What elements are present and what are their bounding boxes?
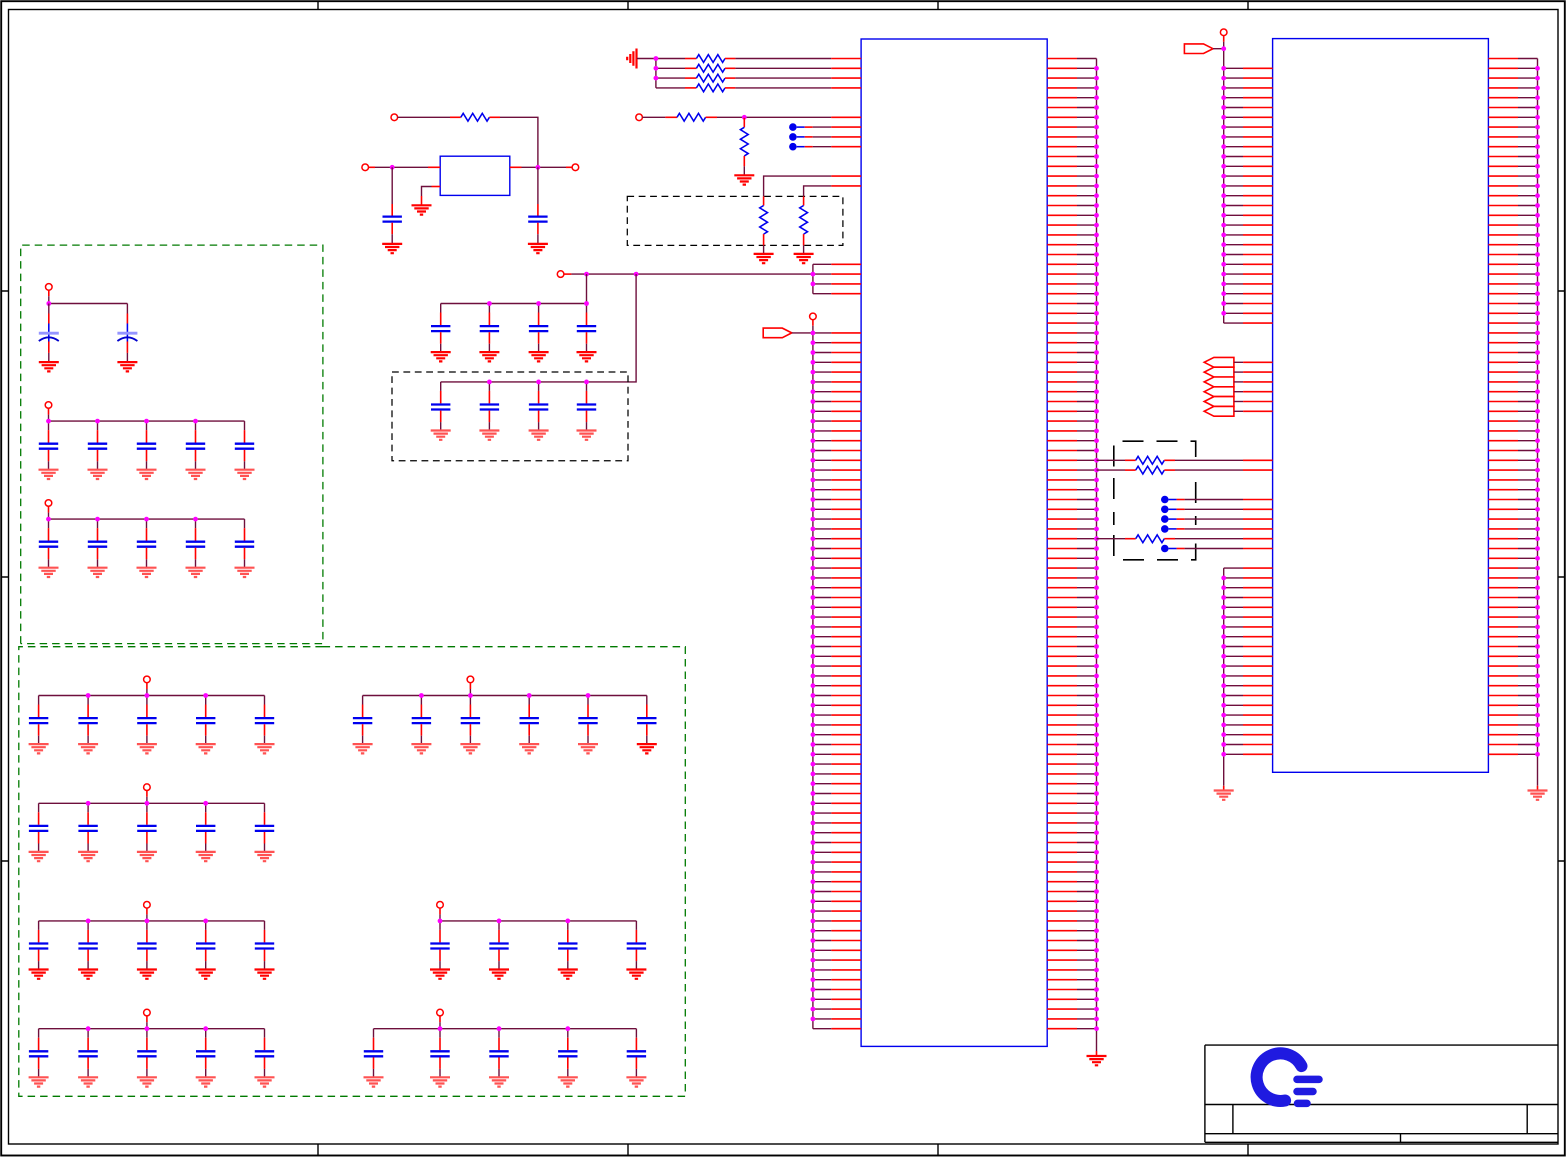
capacitor [480, 382, 499, 431]
no-connect dot [789, 143, 861, 151]
off-page connector [1204, 397, 1234, 407]
capacitor [186, 421, 205, 470]
ground [754, 254, 774, 263]
capacitor [627, 921, 646, 970]
junction dots [419, 693, 590, 698]
IC U1 [861, 39, 1047, 1046]
capacitor [29, 803, 48, 852]
wire U2 left bottom bus [1223, 568, 1225, 790]
no-connect dot [1161, 545, 1273, 553]
ground [137, 568, 157, 577]
ground [137, 744, 157, 753]
wire cap bank bus [39, 683, 265, 696]
capacitor [255, 1029, 274, 1078]
junction dots [46, 419, 198, 424]
capacitor [137, 921, 156, 970]
no-connect dot [1161, 496, 1273, 504]
wire GND bus right of U2 [1537, 59, 1539, 791]
capacitor [39, 421, 58, 470]
resistor R1 [656, 58, 697, 60]
ground [479, 431, 499, 440]
resistor R3 [656, 77, 697, 79]
dashed property box [1114, 441, 1196, 560]
terminal [144, 784, 151, 791]
resistor R6 to ground [743, 118, 745, 128]
ground [196, 970, 216, 979]
resistor R7 [764, 176, 862, 205]
capacitor [489, 921, 508, 970]
terminal [1220, 29, 1227, 36]
junction dots U1 right bus [1094, 66, 1099, 1031]
capacitor [255, 696, 274, 745]
ground [88, 568, 108, 577]
capacitor [364, 1029, 383, 1078]
capacitor [577, 304, 596, 353]
ground [255, 744, 275, 753]
resistor series R42 [1097, 469, 1136, 471]
junction dots U1 left bus [811, 331, 816, 1022]
capacitor [78, 1029, 97, 1078]
capacitor C1 [383, 167, 402, 244]
wire [1234, 401, 1273, 403]
ground [430, 1077, 450, 1086]
junction dots [86, 1026, 208, 1031]
capacitor [196, 696, 215, 745]
capacitor [489, 1029, 508, 1078]
ground [412, 205, 432, 214]
capacitor [78, 921, 97, 970]
off-page connector [1204, 367, 1234, 377]
ground [196, 1077, 216, 1086]
dashed property box [627, 196, 843, 245]
wire U2 left top bus [1213, 36, 1224, 324]
wire VCC rail [564, 264, 861, 293]
ground [489, 970, 509, 979]
ground [519, 744, 539, 753]
capacitor [577, 382, 596, 431]
wire [1234, 371, 1273, 373]
wire cap bank bus [49, 506, 245, 519]
capacitor [430, 1029, 449, 1078]
wire [1234, 410, 1273, 412]
ground [29, 970, 49, 979]
ground [29, 744, 49, 753]
wire [1234, 381, 1273, 383]
capacitor [431, 304, 450, 353]
terminal [572, 164, 579, 171]
ground [255, 970, 275, 979]
capacitor [412, 696, 431, 745]
capacitor [186, 519, 205, 568]
wire U2 left pin stubs [1224, 68, 1273, 323]
ground [353, 744, 373, 753]
ground [1528, 791, 1548, 800]
terminal [636, 114, 643, 121]
ground [794, 254, 814, 263]
capacitor [353, 696, 372, 745]
terminal [437, 902, 444, 909]
capacitor [578, 696, 597, 745]
capacitor [235, 421, 254, 470]
ground [117, 362, 137, 371]
ground [29, 1077, 49, 1086]
capacitor [137, 421, 156, 470]
wire cap bank feed [441, 274, 636, 382]
no-connect dot [1161, 515, 1273, 523]
no-connect dot [789, 123, 861, 131]
junction dots cap banks [487, 301, 589, 384]
junction dots [438, 1026, 571, 1031]
ground [558, 1077, 578, 1086]
wire cap bank bus [363, 683, 647, 696]
terminal [810, 313, 817, 320]
resistor R2 [656, 67, 697, 69]
junction dots VCC rail [584, 272, 815, 287]
ground [1214, 791, 1234, 800]
ground [529, 352, 549, 361]
capacitor [78, 803, 97, 852]
capacitor [39, 519, 58, 568]
capacitor [529, 382, 548, 431]
capacitor [627, 1029, 646, 1078]
wire GND bus right of U1 [1096, 59, 1098, 1057]
ground [78, 744, 98, 753]
wire regulator output [510, 166, 572, 168]
terminal [437, 1009, 444, 1016]
ground [382, 244, 402, 253]
ground [578, 744, 598, 753]
dashed property box [392, 372, 628, 461]
junction dots [86, 919, 208, 924]
no-connect dot [789, 133, 861, 141]
terminal [362, 164, 369, 171]
junction dots [654, 56, 659, 80]
wire cap bank bus [374, 1016, 637, 1029]
voltage group outline [19, 647, 686, 1097]
terminal VCC [557, 271, 564, 278]
capacitor [137, 803, 156, 852]
resistor R8 [804, 186, 862, 206]
capacitor [78, 696, 97, 745]
capacitor [137, 519, 156, 568]
ground [39, 362, 59, 371]
capacitor C2 [528, 167, 547, 244]
ground [137, 470, 157, 479]
resistor R5 with pulldown [642, 116, 677, 118]
capacitor [137, 696, 156, 745]
wire [1234, 391, 1273, 393]
no-connect dot [1161, 506, 1273, 514]
ground [186, 470, 206, 479]
ground [78, 970, 98, 979]
capacitor [480, 304, 499, 353]
wire polar cap bus [49, 290, 128, 303]
terminal [45, 500, 52, 507]
junction dots U2 left bus [1221, 46, 1226, 315]
capacitor [430, 921, 449, 970]
off-page connector [1204, 357, 1234, 367]
junction dots [46, 517, 198, 522]
junction dots [86, 801, 208, 806]
capacitor [558, 1029, 577, 1078]
ground [78, 1077, 98, 1086]
ground [626, 1077, 646, 1086]
wire cap bank bus [49, 408, 245, 421]
capacitor [88, 519, 107, 568]
capacitor [255, 803, 274, 852]
wire cap bank bus [39, 908, 265, 921]
off-page connector [1184, 44, 1213, 54]
wire cap bank bus [39, 1016, 265, 1029]
ground [529, 431, 549, 440]
resistor R4 [656, 87, 697, 89]
ground [137, 1077, 157, 1086]
terminal [467, 676, 474, 683]
terminal [391, 114, 398, 121]
resistor series R49 [1097, 538, 1136, 540]
resistor R9 [398, 116, 461, 118]
ground GND left-pointing [627, 49, 636, 69]
terminal [46, 284, 53, 291]
wire U1 left bus [792, 320, 813, 1029]
voltage regulator U3 [440, 156, 510, 195]
wire U1 right pin stubs [1047, 59, 1096, 1029]
capacitor [29, 1029, 48, 1078]
ground [558, 970, 578, 979]
wire U2 left bottom pin stubs [1224, 568, 1273, 754]
ground [137, 852, 157, 861]
ground [29, 852, 49, 861]
terminal [144, 902, 151, 909]
capacitor [431, 382, 450, 431]
ground [196, 744, 216, 753]
wire cap bank bus [39, 791, 265, 804]
ground [255, 1077, 275, 1086]
off-page connector [1204, 377, 1234, 387]
wire cap bank bus [440, 908, 636, 921]
capacitor [520, 696, 539, 745]
ground [637, 744, 657, 753]
ground [196, 852, 216, 861]
ground [39, 470, 59, 479]
capacitor [558, 921, 577, 970]
ground [734, 175, 754, 184]
no-connect dot [1161, 525, 1273, 533]
terminal [144, 676, 151, 683]
ground [78, 852, 98, 861]
junction dots U2 right bus [1535, 66, 1540, 757]
ground [411, 744, 431, 753]
ground [88, 470, 108, 479]
ground [364, 1077, 384, 1086]
capacitor [196, 803, 215, 852]
off-page connector [1204, 387, 1234, 397]
off-page connector [1204, 406, 1234, 416]
logo [1257, 1053, 1319, 1103]
ground [626, 970, 646, 979]
wire ground to resistor column [637, 59, 656, 88]
capacitor [196, 921, 215, 970]
ground [431, 352, 451, 361]
capacitor [255, 921, 274, 970]
wire regulator input [369, 166, 441, 168]
capacitor [235, 519, 254, 568]
ground [137, 970, 157, 979]
resistor series R41 [1097, 459, 1136, 461]
ground [460, 744, 480, 753]
ground [577, 431, 597, 440]
capacitor [29, 696, 48, 745]
capacitor [461, 696, 480, 745]
capacitor [29, 921, 48, 970]
terminal [144, 1009, 151, 1016]
capacitor [196, 1029, 215, 1078]
junction dots [438, 919, 571, 924]
terminal [45, 402, 52, 409]
wire U1 left pin stubs [813, 333, 861, 1029]
ground [431, 431, 451, 440]
polarized capacitor [117, 304, 137, 363]
capacitor [137, 1029, 156, 1078]
junction dots U2 left bottom bus [1221, 576, 1226, 757]
wire U2 right pin stubs [1488, 59, 1537, 755]
ground [489, 1077, 509, 1086]
ground [1087, 1056, 1107, 1065]
ground [235, 470, 255, 479]
ground [186, 568, 206, 577]
voltage group outline [21, 245, 323, 643]
wire [1234, 361, 1273, 363]
IC U2 [1273, 39, 1489, 773]
ground [235, 568, 255, 577]
off-page connector [763, 328, 792, 338]
ground [479, 352, 499, 361]
junction dots [86, 693, 208, 698]
ground [39, 568, 59, 577]
ground [430, 970, 450, 979]
ground [577, 352, 597, 361]
ground [528, 244, 548, 253]
ground [255, 852, 275, 861]
capacitor [637, 696, 656, 745]
capacitor [529, 304, 548, 353]
polarized capacitor [39, 304, 59, 363]
wire regulator gnd pin [422, 187, 441, 206]
capacitor [88, 421, 107, 470]
